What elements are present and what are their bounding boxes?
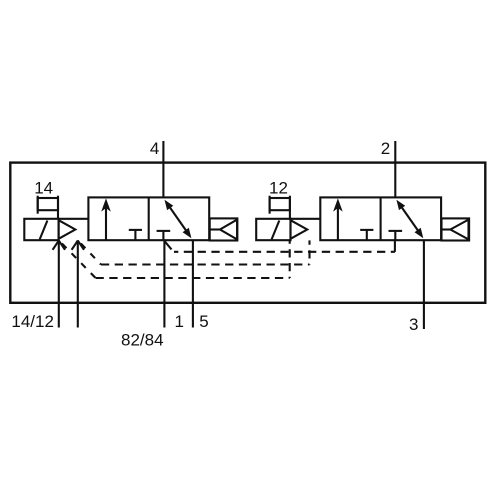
pilot port 14 box — [38, 196, 58, 219]
svg-text:82/84: 82/84 — [121, 331, 164, 350]
wire port 82/84 down line — [163, 240, 165, 327]
pilot line dashed: vertical up to V2 pilot tip — [308, 240, 310, 264]
solenoid Y1 box — [24, 219, 58, 240]
wire pilot 14 down line — [58, 240, 60, 327]
valve V2 diagonal double arrow (right square) — [396, 200, 423, 239]
pilot triangle V2 — [291, 220, 308, 239]
valve V2 blocked port T (right square) — [389, 231, 403, 240]
valve V1 blocked port T (right square) — [157, 231, 171, 240]
air return box V1 — [210, 218, 238, 240]
wire stub under V2 right T — [394, 240, 396, 252]
valve V2 flow arrow (left square) — [333, 198, 343, 239]
pilot block top line V2 — [291, 218, 321, 220]
port 4 line — [162, 141, 164, 197]
svg-text:3: 3 — [409, 315, 418, 334]
wire port 3 down line — [423, 240, 425, 329]
svg-text:5: 5 — [199, 312, 208, 331]
pilot line dashed: top horizontal run — [174, 251, 395, 253]
pilot line dashed: vertical up to V2 solenoid — [289, 240, 291, 278]
pilot line dashed: J2 diagonal — [78, 240, 101, 264]
svg-text:14: 14 — [34, 178, 53, 197]
pilot exhaust stub diagonal at 82/84 — [165, 241, 172, 249]
pilot port 12 box — [270, 196, 290, 219]
valve V1 flow arrow (left square) — [101, 198, 111, 239]
arrowhead at pilot 12 junction — [72, 241, 84, 250]
solenoid Y2 box — [256, 219, 290, 240]
arrowhead at pilot 14 junction — [53, 241, 65, 250]
svg-text:12: 12 — [269, 178, 288, 197]
pilot line dashed: J1 diagonal — [59, 240, 96, 278]
air return box V2 — [442, 218, 470, 240]
wire pilot 12 down line — [77, 240, 79, 327]
wire port 1 down line — [192, 240, 194, 327]
svg-text:14/12: 14/12 — [11, 312, 54, 331]
valve V1 body — [88, 197, 209, 240]
valve V1 diagonal double arrow (right square) — [165, 200, 192, 239]
svg-text:2: 2 — [381, 139, 390, 158]
valve V2 blocked port T (left square) — [360, 230, 373, 240]
valve V2 body — [320, 197, 441, 240]
pilot line dashed: bottom horizontal run — [96, 277, 290, 279]
valve V1 blocked port T (left square) — [129, 230, 142, 240]
svg-text:4: 4 — [150, 139, 159, 158]
pilot block top line V1 — [59, 218, 89, 220]
pilot triangle V1 — [59, 220, 76, 239]
svg-text:1: 1 — [175, 312, 184, 331]
manifold enclosure — [10, 163, 485, 303]
pilot line dashed: middle horizontal run — [101, 263, 310, 265]
port 2 line — [394, 141, 396, 197]
